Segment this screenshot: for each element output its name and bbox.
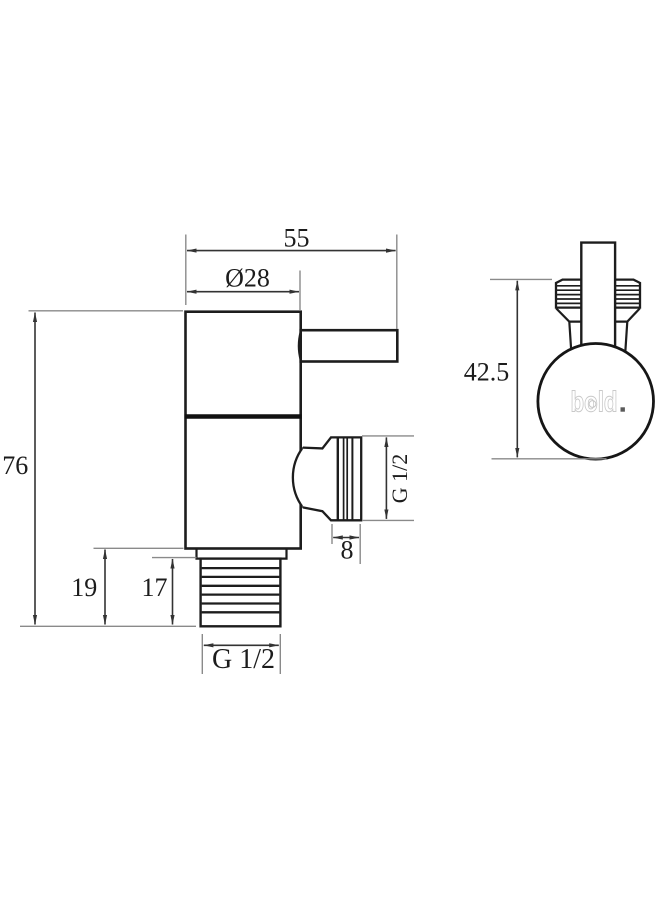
lever end cap arc xyxy=(299,332,301,361)
dimension 28 line xyxy=(187,291,299,293)
dimension 19 line xyxy=(104,550,106,625)
svg-text:bold: bold xyxy=(571,387,618,419)
bottom connector thread lines xyxy=(202,568,280,612)
dimension 17 line xyxy=(172,559,174,625)
side outlet thread lines xyxy=(337,438,339,520)
svg-text:G 1/2: G 1/2 xyxy=(212,644,275,675)
dimension 42.5 line xyxy=(516,281,518,458)
shoulder left xyxy=(556,309,581,353)
svg-text:76: 76 xyxy=(2,451,28,480)
shoulder right xyxy=(615,309,640,353)
valve body (front view) xyxy=(186,312,301,549)
dimension 55 line xyxy=(187,250,396,252)
bottom shared extension line xyxy=(20,625,196,627)
bottom threaded connector xyxy=(201,559,281,627)
svg-text:17: 17 xyxy=(142,573,168,602)
logo period xyxy=(621,407,625,411)
dimension 19 extension line xyxy=(94,547,184,549)
svg-text:Ø28: Ø28 xyxy=(225,264,270,293)
logo o ring xyxy=(589,401,596,408)
side G 1/2 extension lines xyxy=(362,435,414,437)
dimension 17 extension line xyxy=(152,557,197,559)
lever handle (front view) xyxy=(301,330,398,361)
collar thread lines xyxy=(557,286,640,304)
svg-text:8: 8 xyxy=(341,536,354,565)
side G 1/2 dimension line xyxy=(385,437,387,519)
side outlet outline xyxy=(303,437,361,520)
dimension 8 extension lines xyxy=(331,524,333,544)
dimension 28 extension line xyxy=(299,271,301,311)
bottom G 1/2 dimension line xyxy=(204,644,279,646)
svg-text:42.5: 42.5 xyxy=(464,358,510,387)
dimension 8 line xyxy=(333,537,359,539)
svg-text:G 1/2: G 1/2 xyxy=(387,454,412,504)
bottom flange xyxy=(197,549,287,559)
body divider line xyxy=(185,414,302,419)
handle stem (side view) xyxy=(581,243,615,352)
dimension 42.5 extension lines xyxy=(490,278,552,280)
dimension 55 extension lines xyxy=(185,235,187,306)
dimension 76 top extension line xyxy=(29,310,184,312)
bottom G 1/2 extension lines xyxy=(201,634,203,674)
svg-text:19: 19 xyxy=(71,573,97,602)
knob circle xyxy=(538,344,654,460)
side outlet dome xyxy=(293,448,303,508)
bonnet collar (side view) xyxy=(556,280,640,308)
svg-text:55: 55 xyxy=(284,224,310,253)
dimension 76 line xyxy=(34,313,36,625)
